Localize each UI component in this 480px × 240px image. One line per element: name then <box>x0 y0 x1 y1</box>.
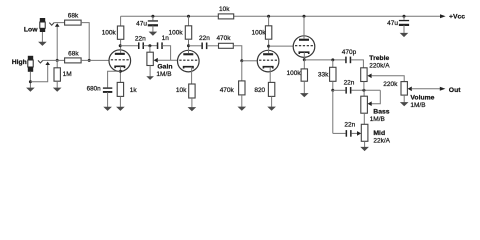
svg-text:Mid: Mid <box>373 130 385 137</box>
svg-text:1M/B: 1M/B <box>410 102 425 109</box>
svg-text:Gain: Gain <box>157 63 172 70</box>
svg-text:220k: 220k <box>383 81 398 88</box>
svg-text:22n: 22n <box>344 80 355 87</box>
svg-text:Out: Out <box>449 87 461 94</box>
svg-text:Volume: Volume <box>410 94 434 101</box>
svg-text:10k: 10k <box>219 6 230 13</box>
svg-text:High: High <box>12 59 27 66</box>
svg-text:100k: 100k <box>168 29 183 36</box>
svg-text:680n: 680n <box>87 86 102 93</box>
svg-text:820: 820 <box>254 87 265 94</box>
svg-text:220k/A: 220k/A <box>369 63 390 70</box>
svg-text:Treble: Treble <box>369 55 389 62</box>
svg-text:10k: 10k <box>176 87 187 94</box>
svg-text:68k: 68k <box>68 50 79 57</box>
svg-text:Low: Low <box>24 26 38 33</box>
svg-text:22n: 22n <box>199 35 210 42</box>
svg-text:22n: 22n <box>135 36 146 43</box>
svg-text:47u: 47u <box>136 21 147 28</box>
svg-text:33k: 33k <box>318 72 329 79</box>
svg-text:1M: 1M <box>63 71 72 78</box>
svg-text:470k: 470k <box>220 87 235 94</box>
svg-text:47u: 47u <box>387 20 398 27</box>
svg-text:100k: 100k <box>251 30 266 37</box>
svg-text:+Vcc: +Vcc <box>449 14 465 21</box>
svg-text:1k: 1k <box>130 87 138 94</box>
svg-text:1M/B: 1M/B <box>370 116 385 123</box>
svg-text:Bass: Bass <box>373 109 389 116</box>
svg-text:22n: 22n <box>344 122 355 129</box>
svg-text:100k: 100k <box>102 29 117 36</box>
svg-text:470p: 470p <box>342 49 357 56</box>
svg-text:100k: 100k <box>286 70 301 77</box>
svg-text:22k/A: 22k/A <box>373 137 390 144</box>
svg-text:1M/B: 1M/B <box>156 71 171 78</box>
svg-text:68k: 68k <box>68 12 79 19</box>
svg-text:470k: 470k <box>216 35 231 42</box>
